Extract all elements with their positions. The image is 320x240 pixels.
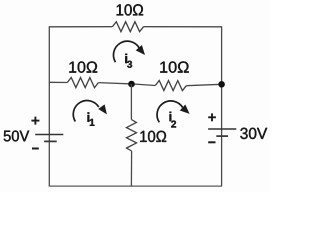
wire: middle rail segment R1 to node A [98,83,131,84]
wire: top-right segment [144,26,222,28]
mesh current arrow i3 [113,41,145,62]
minus sign of 50V source [32,148,39,150]
value label 30V [240,128,267,139]
wire: bottom rail [49,185,222,187]
value label 10ohm (top resistor) [117,4,143,15]
value label 10ohm (middle-right resistor) [160,61,188,72]
wire: centre branch lower (centre resistor to bottom rail) [130,151,132,186]
resistor 10ohm middle-right [155,81,186,91]
value label 50V [4,130,30,141]
wire: middle rail left stub [49,81,67,83]
mesh current label i1 [88,112,95,125]
value label 10ohm (middle-left resistor) [69,61,97,72]
resistor 10ohm top branch [112,22,143,32]
resistor 10ohm centre vertical [126,120,136,152]
plus sign of 30V source [208,113,216,121]
node B junction dot [218,81,225,88]
minus sign of 30V source [208,141,215,143]
plus sign of 50V source [31,117,39,125]
battery V1 50V plates (long positive / short negative) [35,135,63,142]
mesh current label i3 [125,54,132,68]
wire: middle rail segment node A to R2 [132,84,156,86]
wire: top-left segment [49,26,112,28]
wire: left rail (top corner to bottom corner, through 50V source) [48,26,50,186]
mesh current arrow i2 [157,101,190,122]
wire: right rail (top corner to bottom corner, through node B and 30V source) [221,26,223,186]
wire: middle rail segment R2 to node B [186,84,221,85]
mesh current label i2 [170,112,177,128]
battery V2 30V plates (long positive / short negative) [208,129,236,136]
resistor 10ohm middle-left [67,78,98,88]
value label 10ohm (centre resistor) [140,131,166,142]
mesh current arrow i1 [73,101,107,122]
node A junction dot [128,81,135,88]
wire: centre branch upper (node A to centre resistor) [130,84,132,120]
